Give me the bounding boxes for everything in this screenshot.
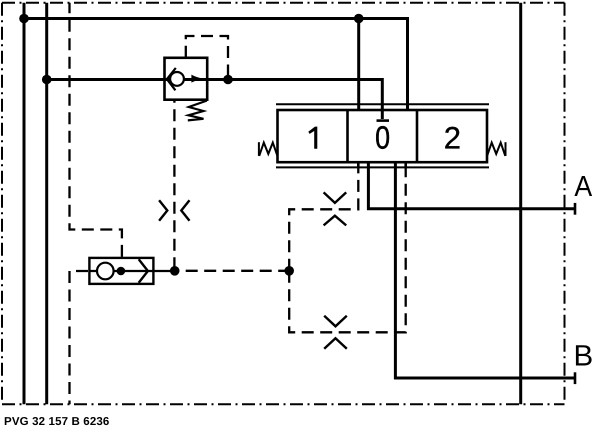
svg-text:B: B: [574, 339, 594, 372]
svg-text:A: A: [574, 171, 592, 203]
svg-text:2: 2: [444, 121, 461, 156]
svg-text:PVG 32 157 B 6236: PVG 32 157 B 6236: [4, 416, 109, 428]
svg-text:0: 0: [375, 120, 390, 156]
